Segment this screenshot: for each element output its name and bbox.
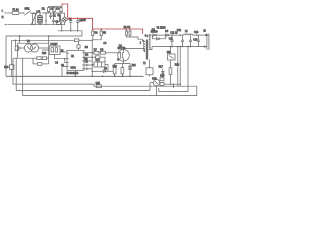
svg-text:R12: R12 [113, 66, 118, 68]
svg-text:CT1: CT1 [96, 60, 101, 62]
node dots on ground rail [91, 76, 93, 78]
wire return left long [6, 31, 82, 77]
svg-text:R15: R15 [96, 83, 101, 85]
snubber branch under diode [153, 35, 157, 39]
diode D9 [166, 34, 169, 36]
svg-text:C11 1k: C11 1k [170, 32, 178, 34]
aux winding lead [149, 60, 151, 68]
resistor row 2 [38, 63, 42, 66]
resistor R2 [53, 8, 55, 12]
wire y95.8 long feedback [23, 58, 197, 95]
optocoupler U2 box [49, 44, 60, 54]
svg-text:J2: J2 [203, 31, 206, 33]
feedback divider TL431 [167, 46, 175, 84]
capacitor C6 bulk [76, 18, 82, 31]
svg-text:UC3842AN: UC3842AN [67, 72, 79, 75]
svg-text:R2: R2 [51, 9, 55, 11]
current transformer box [92, 60, 105, 67]
IC U1 PWM controller [67, 50, 85, 75]
wire bottom to bridge [46, 22, 65, 24]
startup resistor R5 from rail [92, 29, 106, 40]
capacitor C2 [52, 13, 59, 25]
secondary rail y35 [150, 34, 153, 36]
resistor R16 [9, 65, 14, 70]
vertical bus x92 [91, 40, 93, 77]
svg-text:R9: R9 [85, 59, 89, 61]
wire U2 to IC [60, 51, 67, 53]
zener chain secondary [159, 67, 165, 78]
capacitor C1 [49, 13, 56, 19]
stub wireA to opto top [19, 36, 21, 43]
svg-text:R4: R4 [95, 33, 99, 35]
wire feedback long to right [101, 85, 196, 87]
resistor R4a [37, 57, 41, 60]
ground rail primary [6, 75, 144, 77]
svg-text:9: 9 [147, 36, 149, 38]
svg-text:R6: R6 [85, 47, 89, 49]
svg-text:R5: R5 [103, 33, 107, 35]
svg-text:C12: C12 [177, 30, 182, 32]
wire to lamp [21, 47, 25, 49]
svg-text:F1 2A: F1 2A [13, 8, 20, 11]
transformer T1 [143, 27, 167, 59]
stub to plug [15, 40, 17, 46]
feedback component box bottom [96, 85, 101, 88]
wire opto cluster [164, 83, 180, 85]
sense resistor R13 [121, 68, 124, 74]
plug component [15, 46, 20, 51]
svg-text:R11: R11 [132, 65, 137, 67]
wire into U2 [42, 49, 49, 51]
wire choke top to filter [42, 12, 65, 14]
drain wire [124, 49, 145, 52]
svg-text:1: 1 [140, 43, 142, 45]
stub to IC pin3 [65, 59, 67, 63]
svg-text:L: L [2, 11, 4, 13]
output cap Co1 [169, 35, 174, 47]
opto LED secondary [150, 79, 160, 96]
svg-text:R16: R16 [4, 67, 9, 69]
feedback wire y40 [12, 39, 75, 41]
fuse F1 [12, 11, 19, 14]
IC right wires to bus [84, 52, 94, 54]
svg-text:C8: C8 [103, 43, 107, 45]
wire switch to choke [31, 12, 37, 14]
svg-text:SB560: SB560 [151, 32, 159, 34]
wire y88 [172, 84, 174, 88]
svg-text:R18: R18 [160, 75, 165, 77]
switch S1 [23, 12, 24, 13]
wire y91.6 [159, 86, 188, 91]
resistors at opto [160, 78, 164, 81]
svg-text:PC817: PC817 [51, 44, 59, 46]
svg-text:R17: R17 [159, 67, 164, 69]
svg-text:C4: C4 [55, 62, 59, 64]
resistor R3 [60, 8, 62, 12]
wire L to fuse [7, 12, 12, 14]
bridge rectifier B1 [58, 15, 68, 22]
svg-text:D9: D9 [165, 31, 169, 33]
left vertical to R16 [11, 40, 13, 65]
output cap Co3 [189, 35, 198, 47]
svg-text:C3: C3 [85, 62, 89, 64]
startup resistor bus [49, 5, 62, 7]
varistor RV1 [33, 14, 36, 25]
wire y84 left [13, 58, 101, 86]
svg-text:R19: R19 [175, 64, 180, 66]
wire into bridge top [64, 13, 66, 17]
sense resistor R12 [113, 68, 116, 74]
startup resistor R4 from rail [92, 29, 99, 40]
IC bottom stub [75, 70, 77, 76]
resistor above IC [77, 45, 80, 48]
capacitor on pin [84, 64, 87, 66]
svg-text:C11: C11 [169, 38, 174, 40]
MOSFET Q1 [118, 45, 130, 61]
U2 bottom stub [55, 54, 68, 58]
svg-text:LF1: LF1 [37, 12, 42, 14]
gate resistors R7 R8 [92, 52, 94, 54]
diode D8 [153, 34, 156, 36]
wire y90.6 left [16, 58, 150, 90]
svg-text:D5: D5 [104, 69, 108, 71]
svg-text:N: N [2, 17, 4, 19]
source wire [124, 61, 131, 76]
capacitor on pin 2 [84, 68, 87, 70]
inductor L2 [184, 31, 193, 35]
red net: rectified DC [62, 4, 143, 34]
svg-text:310V: 310V [81, 20, 87, 22]
choke LF1 [38, 13, 42, 25]
secondary ground wire [152, 46, 204, 48]
sense comp on x130 [129, 66, 131, 70]
capacitor dark bar [59, 15, 61, 22]
right vertical of opto block [48, 36, 50, 62]
wire lamp right [39, 47, 49, 49]
svg-text:U1: U1 [71, 56, 75, 58]
wire fuse to switch [19, 12, 24, 14]
svg-text:C13: C13 [194, 32, 199, 34]
node bus x46 [45, 13, 47, 25]
svg-text:T1 EE25: T1 EE25 [157, 27, 167, 29]
resistor on vcc line [92, 56, 95, 58]
resistor R1 [48, 8, 50, 12]
lamp circle A [24, 44, 32, 52]
svg-text:3842: 3842 [71, 68, 77, 70]
wire bridge minus down [61, 20, 63, 31]
svg-text:U2B: U2B [152, 79, 157, 81]
output arrow plus [205, 34, 209, 37]
output connector J2 [206, 34, 208, 51]
resistor across filter [57, 22, 61, 25]
capacitor C5 bulk [69, 18, 73, 31]
terminal AC-L input arrow [5, 12, 7, 14]
IC ground pin [62, 67, 67, 77]
feedback verticals right [177, 47, 179, 87]
lamp circle B [30, 44, 38, 52]
svg-text:G: G [117, 59, 119, 61]
resistor R4b [42, 57, 46, 60]
svg-text:T1: T1 [143, 63, 146, 65]
opto block top wire [18, 42, 49, 44]
diode D5 [92, 65, 114, 73]
snubber caps on red rail [124, 27, 147, 39]
return wire primary [58, 30, 82, 32]
svg-text:R2: R2 [85, 55, 89, 57]
svg-text:R1: R1 [42, 9, 46, 11]
resistor R6 series [74, 39, 79, 42]
feedback vertical x188 [187, 47, 189, 87]
output cap Co2 [181, 35, 184, 47]
output cap Co4 [197, 35, 200, 47]
svg-text:R3: R3 [56, 9, 60, 11]
aux rectifier box [146, 68, 153, 75]
output arrow minus [204, 45, 208, 47]
wire N [7, 24, 46, 26]
svg-text:D10: D10 [42, 53, 47, 55]
svg-text:SW1: SW1 [25, 8, 31, 10]
opto block left vertical [17, 43, 19, 58]
opto block bottom wire [13, 57, 37, 59]
terminal AC-N input arrow [5, 24, 7, 26]
svg-text:L2: L2 [185, 31, 188, 33]
